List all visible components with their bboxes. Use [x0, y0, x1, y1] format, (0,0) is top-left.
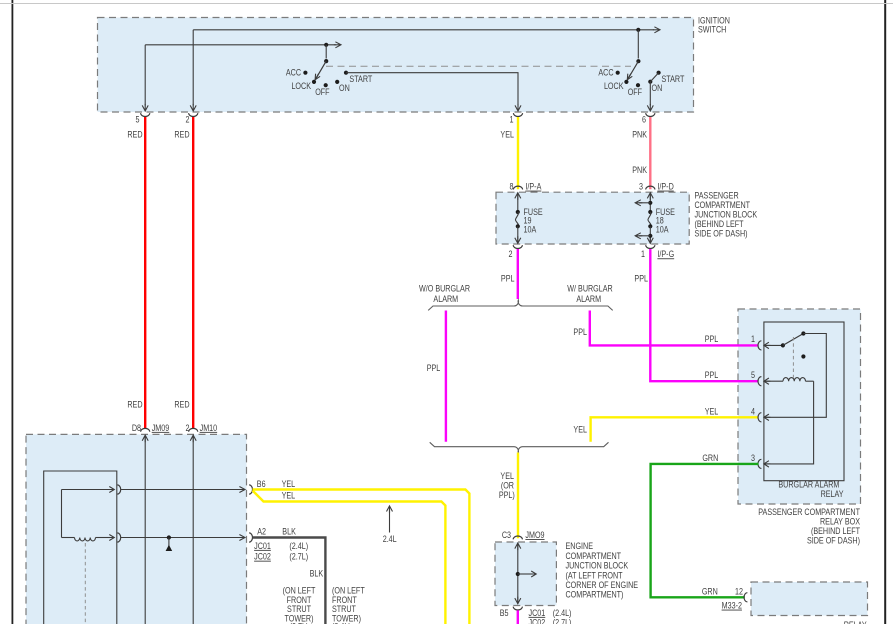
svg-text:(BEHIND LEFT: (BEHIND LEFT: [811, 526, 860, 536]
svg-text:PPL: PPL: [427, 363, 441, 373]
svg-text:RED: RED: [174, 130, 189, 140]
pin 5 connector: [135, 113, 149, 124]
2.4L reference arrow: [387, 506, 393, 533]
svg-text:2: 2: [185, 115, 189, 125]
pin B5 connector: [500, 607, 523, 618]
junction switch 1 feed: [324, 43, 328, 47]
svg-text:RED: RED: [174, 400, 189, 410]
svg-text:M33-2: M33-2: [722, 601, 743, 611]
svg-text:JC01: JC01: [254, 541, 271, 551]
label FUSE 18 10A: [656, 207, 676, 234]
svg-text:1: 1: [509, 115, 513, 125]
relay pin 4 connector: [751, 407, 770, 422]
wire relay coil to pin 3: [764, 381, 814, 464]
svg-text:JM09: JM09: [152, 423, 170, 433]
svg-text:ACC: ACC: [598, 68, 613, 78]
svg-text:PNK: PNK: [632, 165, 647, 175]
svg-text:6: 6: [642, 115, 646, 125]
coil linkage dashed: [84, 543, 86, 624]
svg-text:SIDE OF DASH): SIDE OF DASH): [695, 229, 748, 239]
wire to pin A2: [121, 535, 246, 541]
pin C3 connector JM09: [502, 530, 545, 540]
svg-text:JC02: JC02: [529, 618, 546, 624]
junction with branch marker on A2 wire: [166, 535, 173, 551]
svg-text:COMPARTMENT): COMPARTMENT): [566, 590, 624, 600]
svg-text:PPL: PPL: [573, 327, 587, 337]
svg-text:BLK: BLK: [282, 527, 296, 537]
label JC01 (2.4L): [254, 541, 308, 551]
svg-text:CORNER OF ENGINE: CORNER OF ENGINE: [566, 580, 639, 590]
pin 2 connector junction block: [508, 245, 522, 259]
label ENGINE COMPARTMENT JUNCTION BLOCK: [566, 541, 639, 599]
svg-text:ON: ON: [652, 83, 663, 93]
wire pin 5 vertical: [144, 45, 146, 106]
svg-text:ON: ON: [339, 83, 350, 93]
svg-text:YEL: YEL: [705, 407, 719, 417]
pin 2 connector JM10: [185, 423, 217, 433]
mechanical linkage dashed line: [326, 65, 631, 67]
svg-text:PPL: PPL: [705, 370, 719, 380]
engine junction block internal wire: [515, 543, 536, 604]
svg-text:W/ BURGLAR: W/ BURGLAR: [567, 284, 613, 294]
wire PPL w/o burglar alarm branch: [445, 311, 447, 442]
relay linkage dashed: [792, 337, 794, 378]
svg-text:ALARM: ALARM: [576, 294, 601, 304]
svg-text:SIDE OF DASH): SIDE OF DASH): [807, 536, 860, 546]
svg-text:A2: A2: [257, 527, 266, 537]
wire RED pin 2 to JM10: [192, 117, 194, 428]
svg-text:ALARM: ALARM: [433, 294, 458, 304]
pin B6 connector: [249, 485, 252, 494]
wire switch1 START to pin 1: [346, 73, 518, 106]
svg-text:10A: 10A: [656, 225, 669, 235]
wire BLK A2 to ground: [253, 538, 326, 624]
inline connector B6 line: [117, 485, 120, 494]
label JC02 (2.7L): [254, 552, 308, 562]
svg-text:JC02: JC02: [254, 552, 271, 562]
split brace w/o vs w/ burglar alarm: [428, 300, 613, 310]
svg-text:PASSENGER COMPARTMENT: PASSENGER COMPARTMENT: [758, 507, 860, 517]
wire YEL B6 upper branch: [253, 490, 470, 624]
page right border: [884, 0, 886, 624]
svg-text:BURGLAR ALARM: BURGLAR ALARM: [778, 480, 839, 490]
wire ignition feed to switch 2: [193, 29, 654, 31]
svg-text:YEL: YEL: [282, 491, 296, 501]
svg-text:RELAY: RELAY: [821, 489, 845, 499]
passenger compartment relay box: [738, 309, 861, 504]
svg-text:1: 1: [641, 249, 645, 259]
svg-text:BLK: BLK: [310, 569, 324, 579]
wire PPL w/ burglar alarm branch to relay pin 1: [590, 311, 759, 346]
wire PPL pin 2 to split brace: [517, 249, 519, 299]
svg-text:PPL): PPL): [499, 490, 515, 500]
svg-text:5: 5: [135, 115, 139, 125]
burglar alarm relay outline: [764, 322, 844, 481]
svg-text:LOCK: LOCK: [291, 81, 311, 91]
engine compartment relay box lower left: [26, 434, 247, 624]
label W/ BURGLAR ALARM: [567, 284, 613, 305]
svg-text:PPL: PPL: [501, 274, 515, 284]
wire relay contact to pin 4: [764, 334, 826, 418]
svg-text:I/P-A: I/P-A: [525, 182, 541, 192]
svg-text:12: 12: [735, 587, 743, 597]
wire PPL below B5: [517, 610, 519, 624]
svg-text:1: 1: [751, 334, 755, 344]
svg-text:PPL: PPL: [634, 274, 648, 284]
label JC01 (2.4L) engine block: [529, 608, 572, 618]
svg-text:B5: B5: [500, 608, 509, 618]
fuse 19 10A: [515, 193, 521, 244]
svg-text:RED: RED: [127, 400, 142, 410]
svg-text:JC01: JC01: [529, 608, 546, 618]
fuse 18 branch arrow upper: [635, 200, 652, 206]
svg-text:RED: RED: [127, 130, 142, 140]
pin 8 connector I/P-A: [509, 182, 541, 192]
svg-text:(OR: (OR: [501, 481, 514, 491]
svg-text:PPL: PPL: [705, 334, 719, 344]
svg-text:PASSENGER: PASSENGER: [695, 191, 739, 201]
wire pin 2 vertical: [192, 30, 194, 106]
svg-text:RELAY BOX: RELAY BOX: [820, 517, 861, 527]
wire switch2 ON to pin 6: [649, 82, 651, 106]
svg-text:OFF: OFF: [315, 87, 329, 97]
svg-text:JM10: JM10: [200, 423, 218, 433]
pin 1 connector I/P-G: [641, 245, 674, 259]
page top rule: [0, 3, 893, 4]
svg-text:B6: B6: [257, 479, 266, 489]
label B6 YEL: [257, 479, 296, 489]
svg-text:8: 8: [509, 182, 513, 192]
svg-text:(2.7L): (2.7L): [289, 552, 308, 562]
starter relay outer rectangle: [44, 471, 117, 624]
label YEL (OR PPL): [499, 471, 515, 500]
wire YEL pin 1 to I/P-A: [517, 117, 519, 189]
svg-text:(AT LEFT FRONT: (AT LEFT FRONT: [566, 571, 623, 581]
label BURGLAR ALARM RELAY: [778, 480, 844, 499]
svg-text:C3: C3: [502, 530, 512, 540]
svg-text:ACC: ACC: [286, 68, 301, 78]
svg-text:3: 3: [751, 453, 755, 463]
pin A2 connector: [249, 533, 252, 542]
wire YEL relay pin 4 to merge brace: [591, 417, 759, 442]
label A2 BLK: [257, 527, 296, 537]
wire to pin B6: [121, 487, 246, 493]
svg-text:YEL: YEL: [573, 425, 587, 435]
pin 6 connector: [642, 113, 655, 124]
svg-text:OFF: OFF: [628, 87, 642, 97]
ignition switch box: [98, 18, 694, 113]
pin 3 connector I/P-D: [639, 182, 674, 192]
relay switch contact: [764, 331, 806, 358]
label IGNITION SWITCH: [698, 16, 730, 35]
svg-text:(2.4L): (2.4L): [553, 608, 572, 618]
svg-text:YEL: YEL: [500, 130, 514, 140]
label FUSE 19 10A: [524, 207, 544, 234]
svg-text:JUNCTION BLOCK: JUNCTION BLOCK: [566, 561, 629, 571]
svg-text:START: START: [662, 74, 685, 84]
svg-text:JUNCTION BLOCK: JUNCTION BLOCK: [695, 210, 758, 220]
svg-text:GRN: GRN: [702, 587, 718, 597]
svg-text:LOCK: LOCK: [604, 81, 624, 91]
relay pin 3 connector: [751, 453, 770, 468]
relay pin 1 connector: [751, 334, 770, 350]
svg-text:SWITCH: SWITCH: [698, 25, 726, 35]
inline connector A2 line: [117, 533, 120, 542]
label W/O BURGLAR ALARM: [419, 284, 470, 305]
svg-text:YEL: YEL: [282, 479, 296, 489]
svg-text:COMPARTMENT: COMPARTMENT: [566, 551, 622, 561]
svg-text:PNK: PNK: [632, 130, 647, 140]
svg-text:2: 2: [185, 423, 189, 433]
svg-text:RELAY: RELAY: [844, 620, 868, 624]
svg-text:(2.4L): (2.4L): [289, 541, 308, 551]
merge brace to YEL (OR PPL): [430, 442, 609, 452]
junction switch 2 feed: [636, 28, 640, 32]
svg-text:W/O BURGLAR: W/O BURGLAR: [419, 284, 470, 294]
svg-text:GRN: GRN: [702, 453, 718, 463]
svg-text:START: START: [349, 74, 372, 84]
svg-text:2: 2: [508, 249, 512, 259]
pin 2 connector: [185, 113, 197, 124]
label JC02 (2.7L) engine block: [529, 618, 572, 624]
page left border: [12, 0, 14, 624]
ignition switch 2 (key switch): [616, 59, 661, 87]
passenger compartment junction block box: [496, 192, 689, 244]
svg-text:JMO9: JMO9: [525, 530, 545, 540]
wire RED pin 5 to D8: [144, 117, 146, 428]
svg-text:I/P-G: I/P-G: [657, 249, 674, 259]
fuse 18 branch arrow lower: [635, 233, 652, 239]
label PASSENGER COMPARTMENT JUNCTION BLOCK: [695, 191, 758, 239]
engine compartment junction block box: [495, 542, 556, 606]
svg-text:5: 5: [751, 370, 755, 380]
M33-2 module box: [751, 582, 868, 616]
wire PNK pin 6 to I/P-D: [649, 117, 651, 189]
label ground location column 2: [332, 586, 365, 624]
svg-text:3: 3: [639, 182, 643, 192]
svg-text:2.4L: 2.4L: [383, 534, 397, 544]
pin 1 connector: [509, 113, 522, 124]
wire JM10 vertical inside box: [190, 435, 196, 624]
svg-text:D8: D8: [132, 423, 142, 433]
wire PPL pin 1 to relay pin 5: [650, 249, 758, 381]
wire to switch 1 pivot: [325, 45, 327, 59]
ignition switch 1 (key switch): [303, 59, 348, 87]
wire YEL B6 lower branch 2.4L: [253, 491, 446, 624]
svg-text:10A: 10A: [524, 225, 537, 235]
fuse 18 10A: [647, 193, 653, 244]
svg-text:I/P-D: I/P-D: [657, 182, 673, 192]
label PASSENGER COMPARTMENT RELAY BOX: [758, 507, 860, 545]
wire D8 vertical inside box: [142, 435, 148, 624]
wire GRN relay pin 3 to M33-2 pin 12: [651, 464, 759, 597]
svg-text:ENGINE: ENGINE: [566, 541, 594, 551]
relay pin 5 connector: [751, 370, 770, 385]
label ground location column 1: [283, 586, 316, 624]
wire to switch 2 pivot: [637, 30, 639, 59]
wire ignition feed to switch 1: [145, 44, 336, 46]
relay coil: [764, 378, 814, 382]
pin D8 connector JM09: [132, 423, 170, 433]
M33-2 pin 12 connector: [744, 593, 747, 602]
svg-text:4: 4: [751, 407, 755, 417]
wire YEL (OR PPL) to C3: [517, 453, 519, 539]
svg-text:(2.7L): (2.7L): [553, 618, 572, 624]
svg-text:YEL: YEL: [500, 471, 514, 481]
starter relay inner circuit: [62, 487, 115, 541]
